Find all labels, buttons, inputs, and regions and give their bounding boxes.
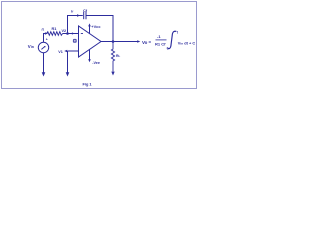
ground arrow [66, 72, 70, 76]
output wire [101, 41, 139, 43]
output arrowhead [137, 40, 140, 43]
svg-text:V1: V1 [58, 50, 63, 54]
feedback wire from cap to output node [86, 16, 113, 42]
voltage source Vin [38, 42, 48, 52]
virtual ground node marker G [73, 39, 77, 43]
ground wire below source [43, 53, 45, 73]
svg-text:R1: R1 [52, 26, 58, 31]
svg-text:V2: V2 [62, 29, 67, 33]
svg-text:+: + [46, 38, 48, 42]
svg-text:-1: -1 [157, 34, 161, 39]
wire R1 to op-amp inverting input [63, 33, 79, 35]
node V2 junction dot [66, 32, 69, 35]
svg-text:+Vcc: +Vcc [91, 24, 101, 29]
wire source top to R1 [44, 34, 48, 43]
minus input sign [81, 33, 83, 35]
capacitor Cf [84, 12, 86, 19]
-Vee supply arrow [89, 49, 91, 60]
svg-text:i1: i1 [42, 27, 45, 31]
svg-text:-Vee: -Vee [92, 61, 100, 65]
svg-text:t: t [177, 31, 179, 35]
+Vcc supply arrow [89, 25, 91, 34]
svg-text:R1 Cf: R1 Cf [155, 41, 166, 46]
current arrow i1 [44, 33, 47, 35]
current arrow if [77, 14, 80, 17]
output junction node [112, 40, 115, 43]
svg-text:RL: RL [116, 54, 121, 58]
current arrow into inverting input [72, 32, 75, 34]
ground wire below + input [67, 51, 69, 73]
border frame [2, 2, 197, 89]
svg-text:0: 0 [167, 46, 169, 50]
op-amp U1 triangle [79, 26, 102, 57]
non-inverting input wire [68, 50, 79, 52]
svg-text:if: if [71, 10, 74, 14]
svg-text:Vin: Vin [28, 44, 34, 49]
resistor R1 [47, 32, 63, 36]
ground arrow [111, 72, 114, 76]
svg-text:Fig 1: Fig 1 [83, 82, 93, 87]
svg-text:Vo =: Vo = [142, 40, 152, 45]
integral sign [168, 31, 177, 48]
feedback wire up from node [68, 16, 83, 34]
ground arrow [42, 72, 46, 76]
svg-text:Cf: Cf [83, 8, 88, 13]
load resistor RL [111, 42, 114, 72]
arrow V1 [64, 50, 67, 52]
svg-text:Vin dt + C: Vin dt + C [178, 41, 196, 46]
